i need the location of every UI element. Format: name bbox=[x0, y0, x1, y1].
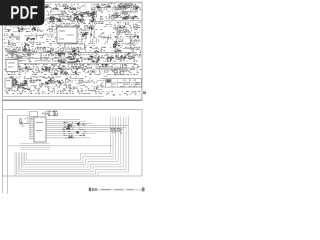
wire to bundle bbox=[8, 145, 113, 147]
vertical feed wire fig2 bbox=[7, 115, 30, 193]
component band bottom left bbox=[5, 77, 105, 95]
revision note row bbox=[106, 91, 146, 95]
key scan return wires bbox=[15, 153, 129, 177]
IC U601 jungle bbox=[57, 27, 77, 43]
net labels on bus bbox=[62, 122, 86, 139]
component cluster center bbox=[45, 24, 96, 46]
IF coil L201 bbox=[92, 22, 95, 44]
IC U2 micom bbox=[29, 117, 46, 142]
PDF badge bbox=[0, 0, 45, 25]
deflection arrows detail bbox=[129, 3, 136, 9]
signal labels under badge bbox=[4, 26, 44, 32]
white relay box bbox=[65, 44, 85, 49]
key scan bundle verticals bbox=[110, 117, 128, 173]
driver box bottom left bbox=[5, 78, 12, 88]
long bus wires middle bbox=[8, 52, 136, 68]
transistor Q3 bbox=[47, 111, 51, 116]
component band lower middle bbox=[4, 64, 141, 76]
sparse vertical wires gutter bbox=[95, 29, 111, 44]
transistor Q4 bbox=[53, 111, 57, 116]
wire harness top band bbox=[5, 4, 140, 10]
pin stubs IC U601 bbox=[58, 25, 76, 45]
component cluster upper right bbox=[105, 11, 139, 20]
net labels at bends bbox=[110, 128, 122, 134]
parts list table bbox=[106, 79, 142, 88]
IF block boxes top right bbox=[106, 3, 141, 10]
component cluster upper center bbox=[45, 11, 103, 24]
wire group below IC bbox=[20, 144, 50, 150]
title block bar bbox=[89, 187, 146, 191]
connector CN2 fig2 top bbox=[30, 111, 59, 116]
small input components fig2 bbox=[19, 118, 33, 127]
IC port bus wires bbox=[46, 120, 129, 138]
wire lower left bbox=[3, 96, 143, 100]
tuner box TU101 bbox=[6, 60, 18, 72]
component band middle bbox=[5, 47, 141, 63]
wire bus right block bbox=[104, 20, 142, 49]
component cluster left mid bbox=[4, 33, 45, 58]
